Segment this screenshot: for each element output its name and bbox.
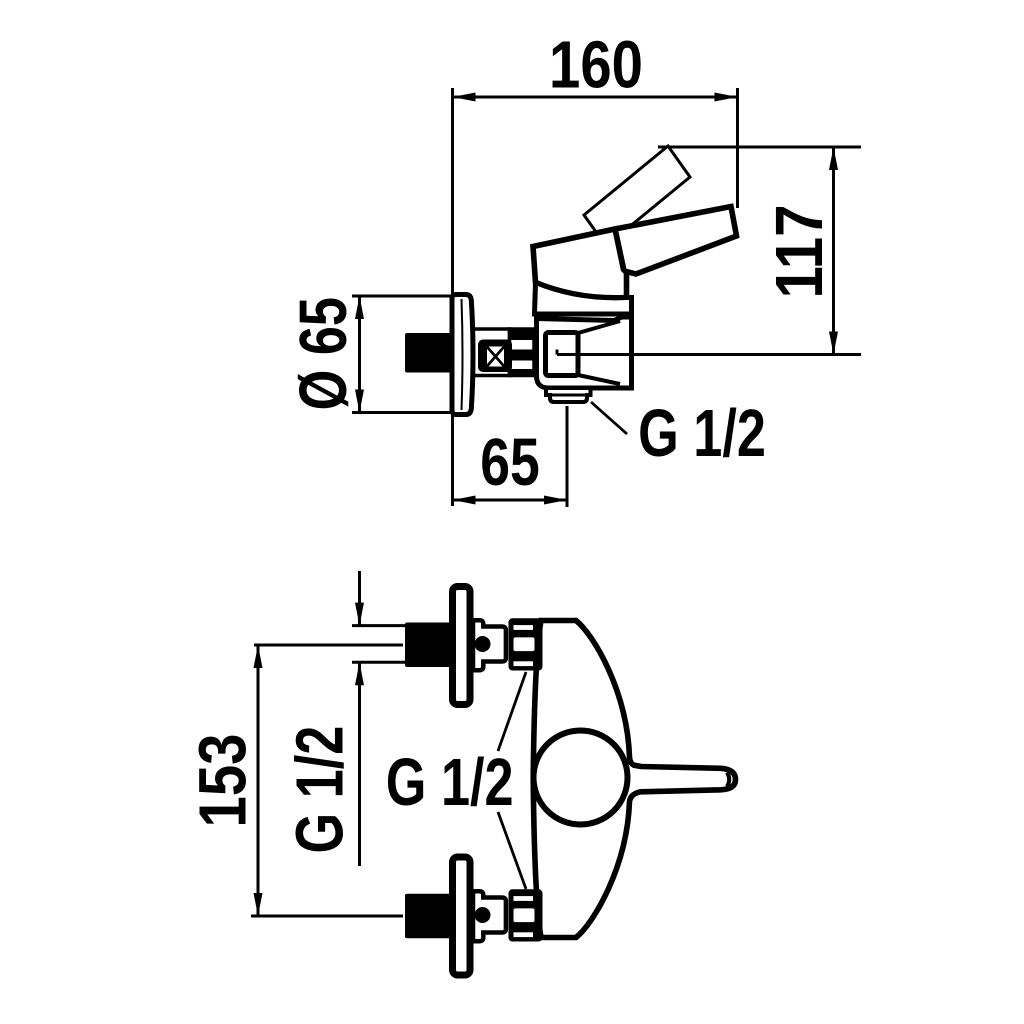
svg-text:153: 153 (186, 734, 261, 828)
svg-text:G 1/2: G 1/2 (282, 726, 357, 854)
svg-text:65: 65 (480, 424, 540, 499)
svg-text:160: 160 (549, 28, 643, 103)
svg-text:Ø 65: Ø 65 (286, 297, 361, 410)
svg-text:117: 117 (762, 204, 837, 298)
svg-text:G 1/2: G 1/2 (638, 396, 766, 471)
svg-text:G 1/2: G 1/2 (386, 745, 514, 820)
